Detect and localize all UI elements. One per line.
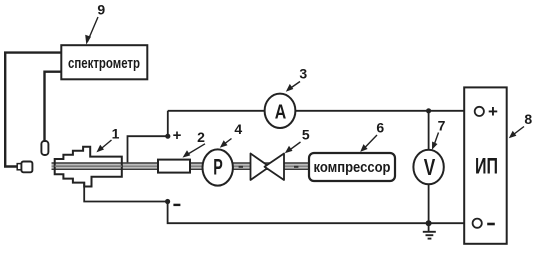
- svg-text:1: 1: [112, 126, 120, 142]
- svg-text:5: 5: [302, 127, 310, 143]
- svg-text:9: 9: [97, 2, 105, 18]
- svg-text:7: 7: [438, 118, 446, 134]
- svg-text:компрессор: компрессор: [314, 159, 391, 176]
- svg-text:+: +: [488, 102, 498, 121]
- svg-text:3: 3: [299, 65, 307, 81]
- svg-text:2: 2: [197, 129, 205, 145]
- svg-text:P: P: [213, 155, 223, 180]
- svg-text:А: А: [275, 102, 287, 124]
- svg-text:4: 4: [234, 121, 242, 137]
- svg-text:ИП: ИП: [475, 154, 498, 179]
- svg-text:V: V: [424, 154, 436, 180]
- svg-text:спектрометр: спектрометр: [68, 55, 140, 72]
- svg-text:6: 6: [376, 120, 384, 136]
- svg-text:8: 8: [524, 111, 532, 127]
- svg-text:+: +: [173, 127, 182, 144]
